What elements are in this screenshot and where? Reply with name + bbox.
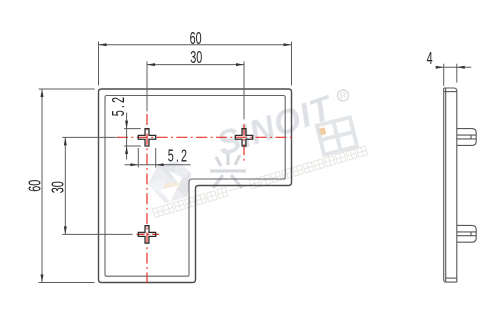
watermark tian symbol — [317, 117, 357, 154]
watermark logo hexagon — [148, 161, 191, 203]
watermark (R) — [336, 89, 349, 102]
dimension 30 top — [147, 48, 244, 119]
dimension 5.2 horizontal — [125, 147, 191, 167]
svg-text:30: 30 — [190, 48, 202, 67]
dimension 4 side — [427, 50, 472, 86]
watermark tagline — [152, 146, 367, 218]
dimension 30 left — [49, 137, 133, 234]
watermark orange accent — [318, 127, 326, 135]
centerline horizontal hole H3 — [137, 233, 160, 235]
hole H1 cross 5.2 — [138, 129, 155, 146]
svg-text:5.2: 5.2 — [109, 95, 128, 116]
hole H3 cross 5.2 — [138, 226, 155, 243]
centerline vertical hole H2 — [243, 125, 245, 162]
svg-text:60: 60 — [26, 180, 45, 192]
side view upper tab — [457, 129, 476, 146]
side view lower tab — [457, 225, 476, 242]
svg-text:60: 60 — [190, 29, 202, 48]
watermark char xing — [210, 153, 246, 188]
dimension 60 left — [26, 89, 95, 283]
part outline inner contour — [105, 96, 285, 277]
side view plate — [444, 88, 457, 282]
watermark brand text — [212, 88, 339, 164]
hole H2 cross 5.2 — [235, 129, 252, 146]
centerline horizontal top holes — [117, 136, 295, 138]
part outline outer L — [99, 89, 292, 283]
svg-text:4: 4 — [427, 50, 433, 69]
dimension 5.2 vertical — [109, 95, 140, 160]
centerline vertical left holes — [146, 114, 148, 285]
svg-text:30: 30 — [49, 181, 68, 193]
dimension 60 top — [99, 29, 292, 85]
svg-text:5.2: 5.2 — [168, 147, 189, 166]
